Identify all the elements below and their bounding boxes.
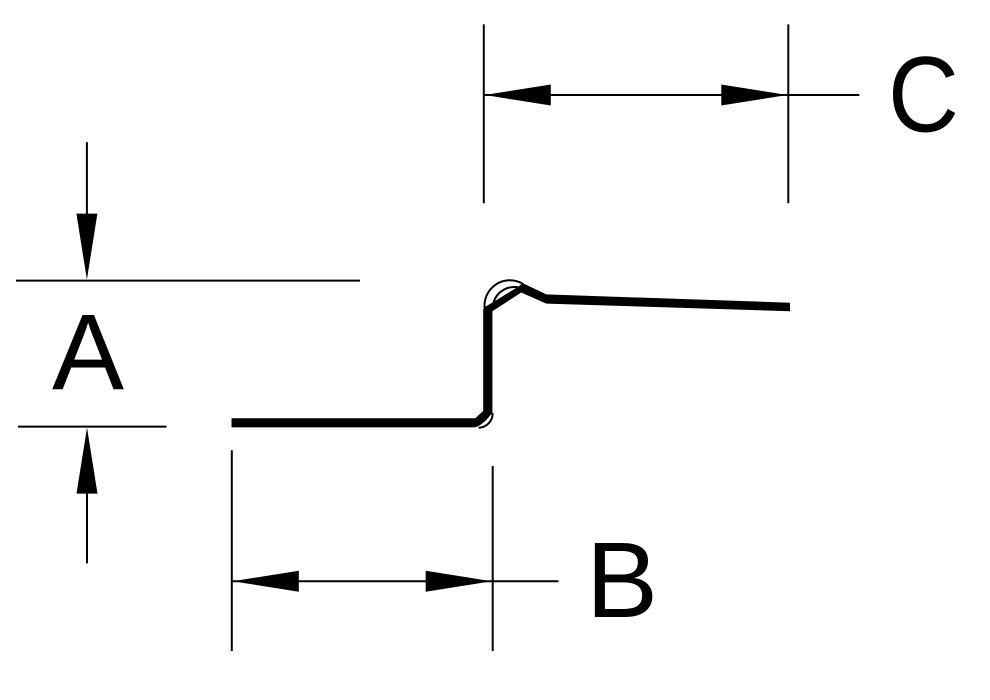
dimension A leader top <box>86 142 88 216</box>
dimension A top line <box>16 280 360 282</box>
dimension C arrow left <box>485 85 551 106</box>
dimension C line <box>484 94 860 96</box>
dimension A leader bottom <box>86 491 88 563</box>
dimension C extension line left <box>483 24 485 203</box>
bend outer arc (bottom corner thin arc) <box>479 413 493 428</box>
dimension B line <box>232 580 559 582</box>
dimension B extension line right <box>492 466 494 651</box>
dimension A bottom line <box>18 426 167 428</box>
dimension B arrow right <box>426 571 492 592</box>
dimension A arrow up <box>77 428 98 494</box>
dimension C extension line right <box>787 24 789 203</box>
profile web diagonal + top flange (thick fill) <box>484 283 790 311</box>
top bend inner arc (thin) <box>494 287 519 303</box>
top bend outer arc (thin) <box>485 280 523 309</box>
svg-text:C: C <box>888 33 959 154</box>
dimension B arrow left <box>233 571 299 592</box>
dimension B extension line left <box>231 450 233 651</box>
dimension A arrow down <box>76 214 97 280</box>
svg-text:A: A <box>52 291 124 412</box>
dimension C arrow right <box>721 85 787 106</box>
profile lower flange (thick) <box>232 309 493 427</box>
svg-text:B: B <box>586 519 658 640</box>
